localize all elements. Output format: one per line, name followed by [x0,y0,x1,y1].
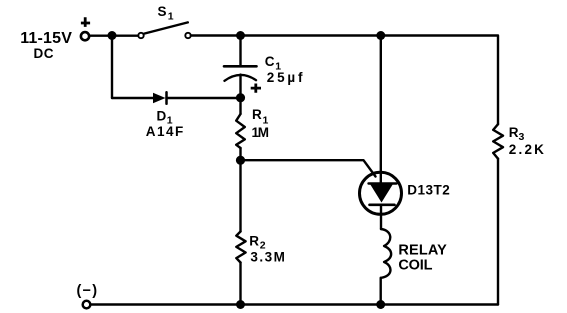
svg-text:R: R [509,125,519,140]
svg-text:1: 1 [168,10,174,22]
svg-text:A14F: A14F [146,124,185,139]
wire gate from node to transistor [241,160,376,176]
svg-text:C: C [265,54,275,69]
wire bottom rail [91,303,498,305]
svg-text:(−): (−) [77,283,99,299]
svg-text:2.2K: 2.2K [509,142,546,157]
capacitor C1 [224,66,257,81]
svg-text:D13T2: D13T2 [407,183,450,198]
wire coil bottom to bottom rail [380,278,382,305]
wire R1 bottom to gate node [239,148,241,160]
switch S1 [138,22,190,38]
wire top rail to right column and down to R3 [381,36,498,125]
label C1 [265,54,281,72]
node junction at C1 top [236,31,245,40]
svg-text:S: S [158,4,167,19]
svg-text:R: R [249,234,259,249]
node junction coil bottom rail [376,300,385,309]
resistor R2 [236,232,245,263]
node junction at transistor anode column [376,31,385,40]
wire top rail from switch to C1 node [191,34,241,36]
svg-text:R: R [252,107,262,122]
resistor R3 [493,124,503,159]
wire top rail from C1 node to anode node [241,34,381,36]
wire from C1 curved plate down to junction [239,75,241,98]
svg-text:3.3M: 3.3M [250,250,286,265]
node junction top-left (branch to diode) [108,31,117,40]
svg-text:11-15V: 11-15V [20,30,72,47]
inductor relay coil [381,229,391,278]
svg-text:D: D [157,109,167,124]
svg-text:RELAY: RELAY [398,242,447,258]
label R2 [249,234,265,252]
wire from top rail down to C1 top plate [239,36,241,66]
label R1 [252,107,269,126]
terminal (+) input [81,32,89,40]
wire gate node down to R2 [239,160,241,231]
svg-text:25µf: 25µf [267,70,306,85]
wire anode from top rail into transistor [380,36,382,184]
wire C1 node down to R1 [239,98,241,114]
resistor R1 [236,114,245,148]
svg-text:1M: 1M [252,125,269,140]
terminal (-) output [83,301,91,309]
wire diode anode side [112,97,154,99]
label 11-15V DC [20,30,72,61]
plus sign for C1 polarity [251,84,261,93]
node junction R2 bottom rail [236,300,245,309]
diode D1 [153,92,167,104]
wire top rail from + terminal to switch [90,35,139,37]
wire diode cathode to C1 bottom node [167,97,241,99]
node junction R1/R2/gate [236,156,245,165]
transistor U1 D13T2 [360,172,402,214]
wire cathode down from transistor to coil [380,205,382,229]
wire branch down from top-left junction to diode row [111,36,113,99]
svg-text:COIL: COIL [398,258,432,274]
wire right column below R3 to bottom rail [497,159,499,305]
svg-text:DC: DC [34,46,55,61]
label D1 [157,109,173,127]
label RELAY COIL [398,242,447,273]
label R3 [509,125,525,143]
plus sign at positive terminal [81,17,90,27]
node junction diode/C1/R1 [236,93,245,102]
label S1 [158,4,174,22]
wire R2 bottom to bottom rail [239,263,241,305]
